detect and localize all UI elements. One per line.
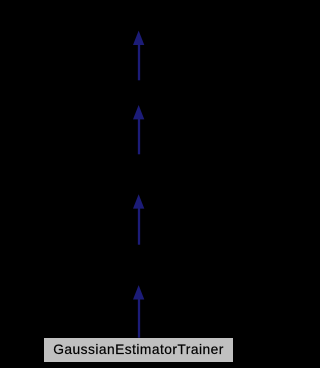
arrow 1 (topmost generalization arrow) <box>133 31 144 81</box>
arrow 2 <box>133 105 144 154</box>
arrow 4 (to GaussianEstimatorTrainer) <box>133 285 144 338</box>
arrow 3 <box>133 194 144 245</box>
node GaussianEstimatorTrainer (current class box) <box>44 338 232 362</box>
